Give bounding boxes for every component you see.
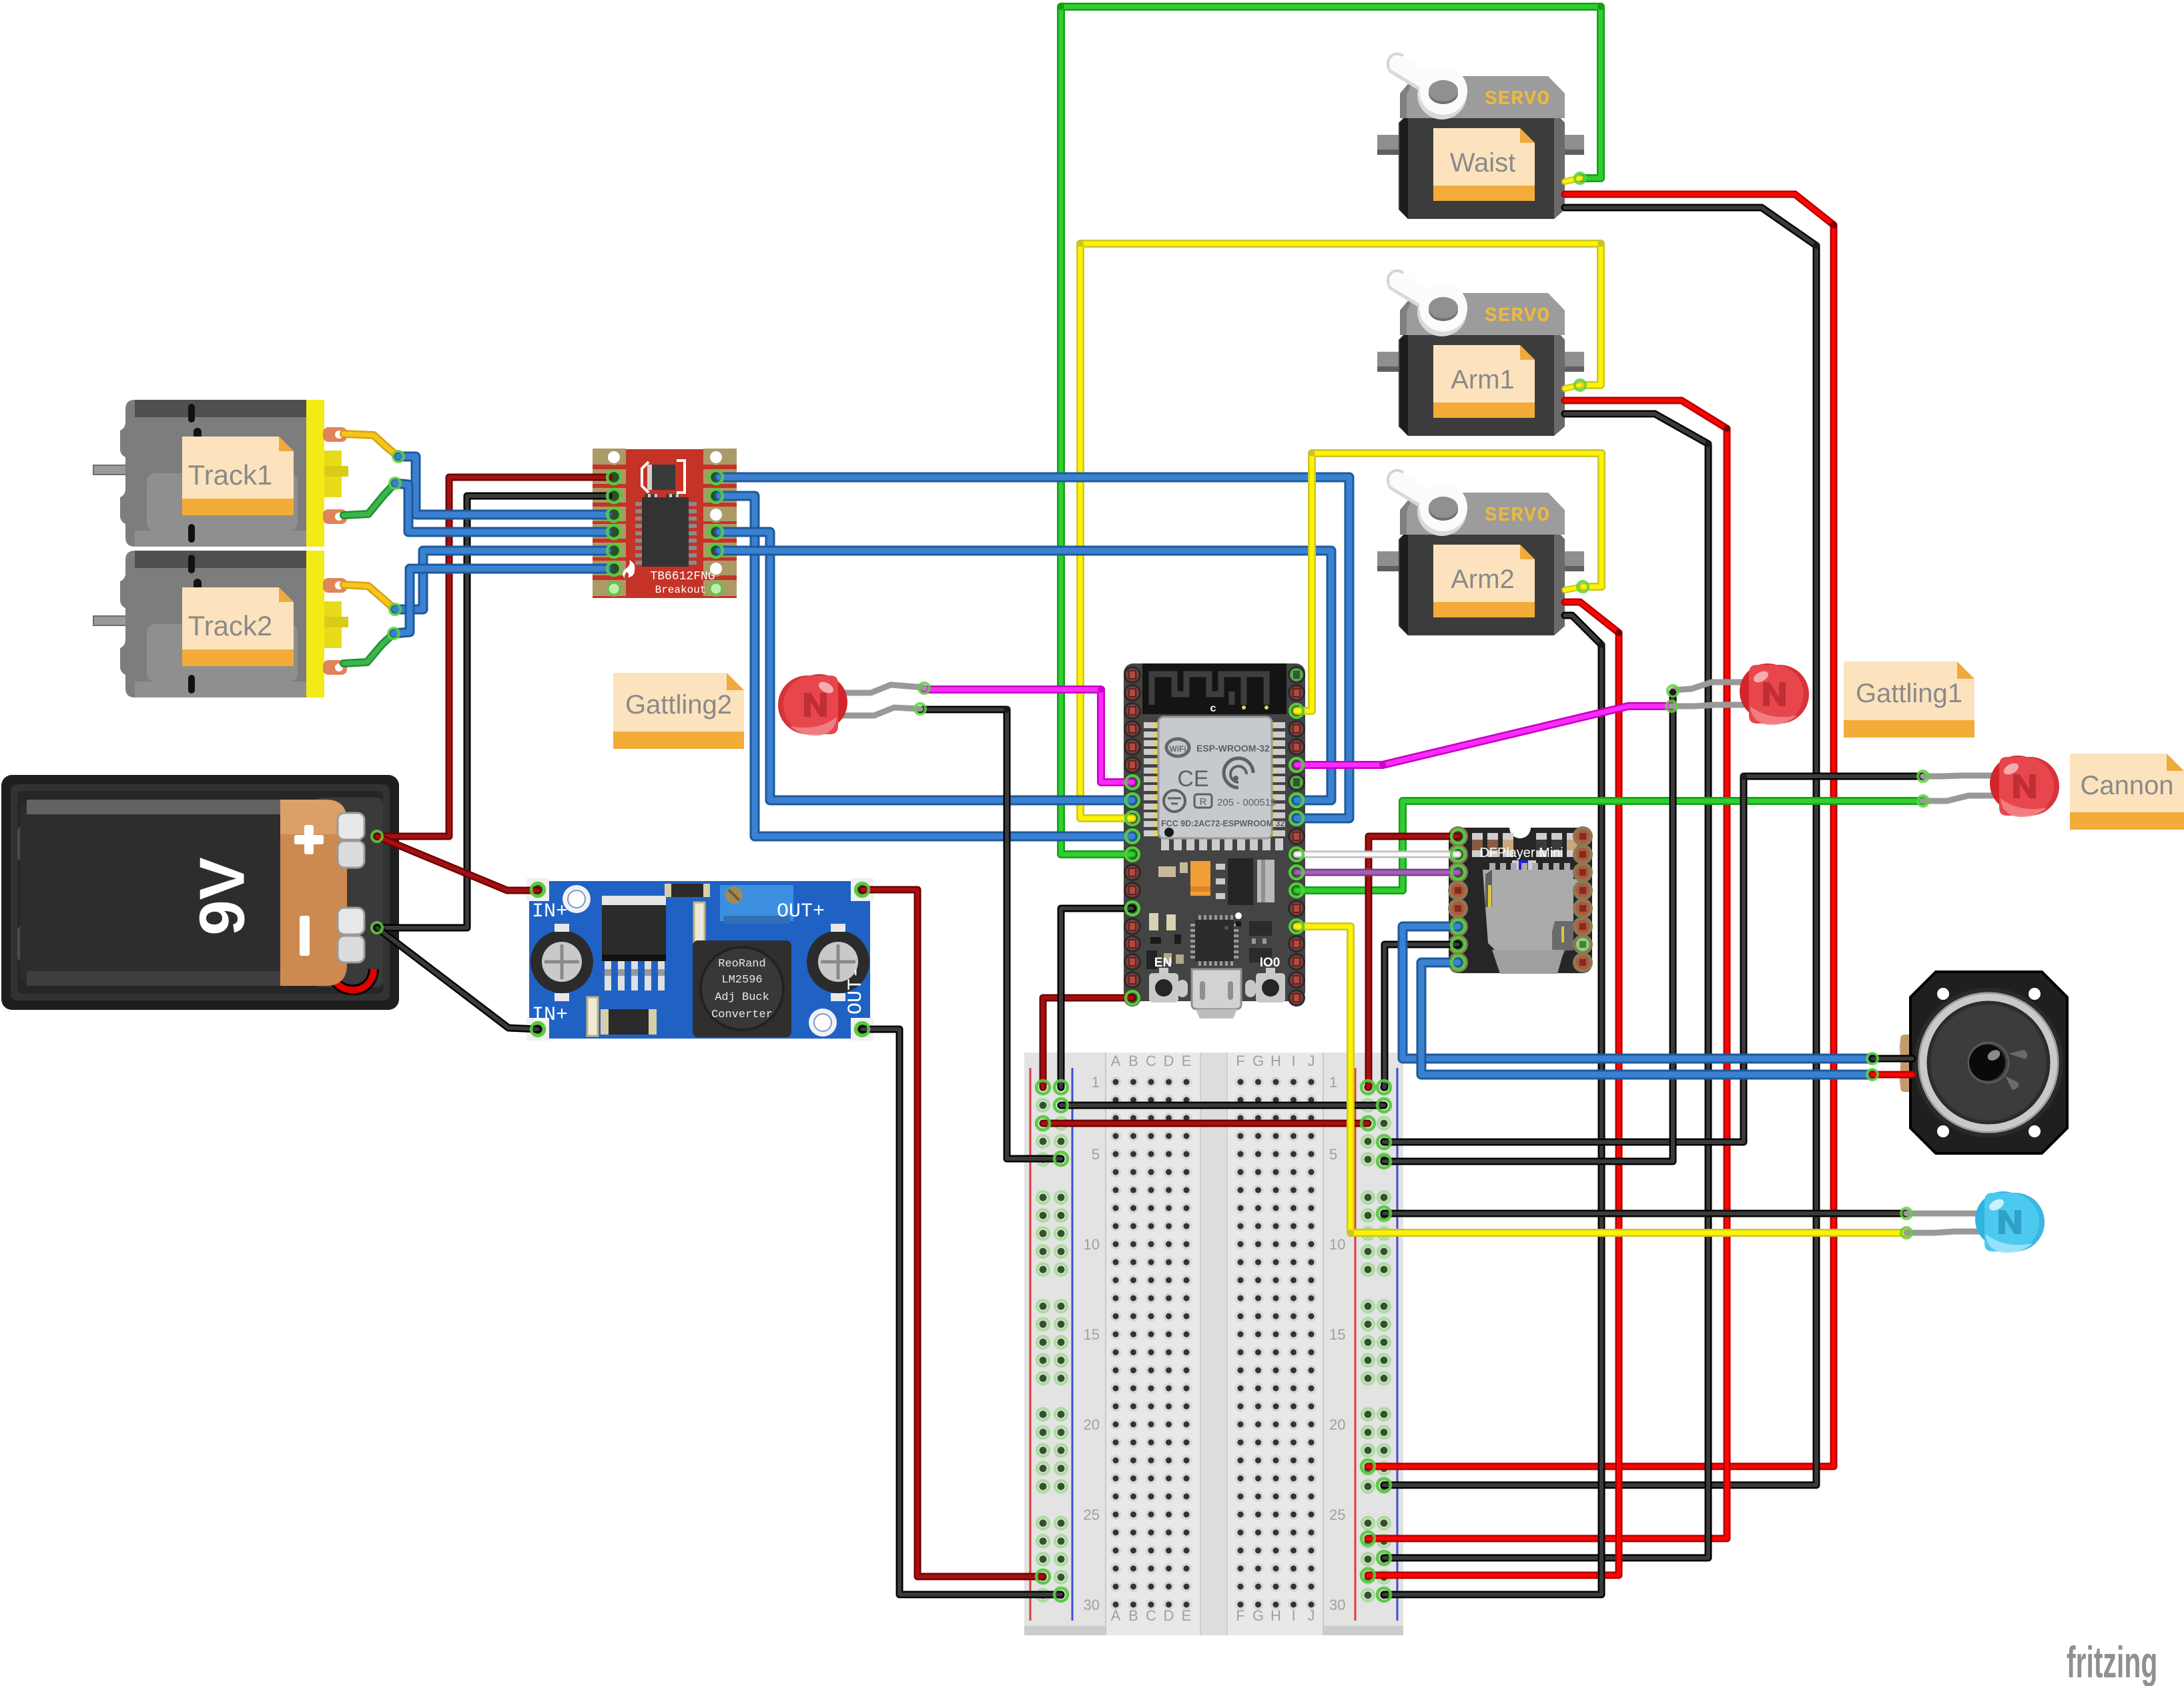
wire green Track1 motor terminal bbox=[344, 483, 395, 515]
svg-text:F: F bbox=[1236, 1053, 1244, 1069]
wire yellow ESP32 to Arm2 servo signal bbox=[1297, 453, 1601, 711]
wire yellow ESP32 to blue LED bbox=[1297, 926, 1906, 1233]
wire junctions bbox=[372, 173, 1928, 1238]
wire yellow Arm1 connector stub bbox=[1565, 385, 1580, 388]
wire yellow ESP32 to Arm1 servo signal bbox=[1080, 244, 1601, 818]
svg-text:1: 1 bbox=[1329, 1074, 1337, 1091]
wire magenta Gattling2 LED to ESP32 bbox=[924, 689, 1132, 782]
svg-text:c: c bbox=[1210, 703, 1216, 714]
servo S1 Waist bbox=[1377, 54, 1584, 219]
svg-text:5: 5 bbox=[1329, 1146, 1337, 1163]
svg-text:10: 10 bbox=[1329, 1236, 1345, 1253]
svg-text:Breakout: Breakout bbox=[655, 584, 707, 596]
label note Cannon bbox=[2070, 754, 2184, 830]
svg-text:G: G bbox=[1252, 1053, 1264, 1069]
svg-text:SERVO: SERVO bbox=[1485, 87, 1550, 111]
svg-text:C: C bbox=[1146, 1053, 1156, 1069]
svg-text:B: B bbox=[1128, 1607, 1138, 1624]
buck converter U2 LM2596 bbox=[526, 878, 873, 1041]
wire black Gattling2 LED to rail bbox=[920, 710, 1061, 1159]
svg-text:Track2: Track2 bbox=[188, 610, 273, 641]
fritzing watermark bbox=[2067, 1637, 2157, 1686]
speaker SPK1 bbox=[1899, 972, 2067, 1153]
svg-text:IN+: IN+ bbox=[532, 900, 568, 923]
wire black battery- to TB6612 GND bbox=[377, 496, 609, 928]
svg-text:SERVO: SERVO bbox=[1485, 304, 1550, 328]
audio module U4 DFPlayer Mini bbox=[1448, 826, 1593, 974]
servo S2 Arm1 bbox=[1377, 271, 1584, 436]
svg-text:Gattling2: Gattling2 bbox=[625, 690, 732, 720]
wire black DFPlayer GND to rail bbox=[1384, 944, 1458, 1087]
svg-text:ReoRand: ReoRand bbox=[718, 958, 765, 970]
wire green Track2 motor terminal bbox=[344, 633, 394, 663]
LED D3 Cannon red bbox=[1923, 756, 2059, 817]
svg-text:J: J bbox=[1308, 1053, 1315, 1069]
svg-text:15: 15 bbox=[1329, 1326, 1345, 1343]
svg-text:Adj Buck: Adj Buck bbox=[715, 991, 769, 1004]
wire red Arm2 servo V+ bbox=[1368, 602, 1619, 1575]
connected pin rings bbox=[531, 471, 1465, 1601]
svg-text:ESP-WROOM-32: ESP-WROOM-32 bbox=[1196, 743, 1270, 754]
wire black speaker terminal stub bbox=[1872, 1055, 1912, 1063]
wire red LM2596 OUT+ to breadboard rail bbox=[862, 890, 1043, 1577]
wire black ESP32 GND to breadboard rail bbox=[1061, 908, 1132, 1087]
svg-text:Arm1: Arm1 bbox=[1451, 365, 1515, 394]
wire black Arm2 servo GND bbox=[1384, 615, 1601, 1595]
wire black blue LED to rail bbox=[1384, 1210, 1906, 1217]
wire black Gattling1 LED to rail bbox=[1384, 692, 1673, 1161]
wire red ESP32 VIN to breadboard rail bbox=[1043, 998, 1132, 1087]
wire black Arm1 servo GND bbox=[1384, 414, 1708, 1558]
svg-text:FCC 9D:2AC72-ESPWROOM 32: FCC 9D:2AC72-ESPWROOM 32 bbox=[1161, 819, 1285, 828]
svg-text:25: 25 bbox=[1084, 1506, 1100, 1523]
svg-text:9V: 9V bbox=[186, 857, 258, 935]
svg-text:D: D bbox=[1164, 1053, 1174, 1069]
wire red battery+ to LM2596 IN+ bbox=[377, 836, 538, 890]
wire black battery- to LM2596 IN- bbox=[377, 928, 538, 1029]
svg-text:CE: CE bbox=[1177, 766, 1208, 792]
wire green ESP32 to Cannon LED bbox=[1297, 801, 1923, 890]
wire blue DFPlayer SPK2 to speaker bbox=[1421, 962, 1872, 1075]
svg-text:WiFi: WiFi bbox=[1169, 744, 1186, 754]
motor driver U3 TB6612FNG breakout bbox=[593, 449, 737, 598]
wire green ESP32 to Waist servo signal bbox=[1061, 7, 1601, 854]
wire blue TB6612 AIN2 to ESP32 bbox=[719, 496, 1132, 836]
wire black breadboard rail bus bbox=[1061, 1102, 1384, 1109]
wire yellow Arm2 connector stub bbox=[1565, 587, 1583, 590]
wire blue TB6612 AIN1 to ESP32 bbox=[719, 532, 1132, 800]
svg-text:B: B bbox=[1128, 1053, 1138, 1069]
label note Gattling2 bbox=[613, 673, 744, 749]
svg-text:E: E bbox=[1182, 1053, 1192, 1069]
svg-text:A: A bbox=[1111, 1607, 1121, 1624]
wire bend points bbox=[1004, 3, 1837, 1236]
svg-text:F: F bbox=[1236, 1607, 1244, 1624]
wire red DFPlayer VCC to rail bbox=[1368, 836, 1458, 1087]
svg-text:30: 30 bbox=[1084, 1597, 1100, 1613]
svg-text:SERVO: SERVO bbox=[1485, 504, 1550, 527]
wire yellow Track1 motor terminal bbox=[344, 434, 398, 457]
svg-text:205 - 000519: 205 - 000519 bbox=[1217, 797, 1276, 808]
wire red Waist servo V+ bbox=[1368, 194, 1834, 1466]
svg-text:Arm2: Arm2 bbox=[1451, 565, 1515, 594]
svg-text:OUT-: OUT- bbox=[845, 966, 867, 1015]
svg-text:15: 15 bbox=[1084, 1326, 1100, 1343]
svg-text:I: I bbox=[1291, 1607, 1295, 1624]
svg-text:H: H bbox=[1270, 1607, 1281, 1624]
svg-text:10: 10 bbox=[1084, 1236, 1100, 1253]
wire purple ESP32 RX to DFPlayer TX bbox=[1297, 869, 1458, 876]
LED D1 Gattling1 red bbox=[1672, 663, 1809, 725]
LED D2 Gattling2 red bbox=[778, 674, 924, 736]
wire blue Track2 B to TB6612 bbox=[394, 569, 607, 633]
wire blue TB6612 STBY to ESP32 bbox=[719, 551, 1331, 800]
svg-text:G: G bbox=[1252, 1607, 1264, 1624]
wire red Arm1 servo V+ bbox=[1368, 400, 1727, 1538]
svg-text:H: H bbox=[1270, 1053, 1281, 1069]
svg-text:Gattling1: Gattling1 bbox=[1856, 679, 1962, 708]
svg-text:1: 1 bbox=[1092, 1074, 1100, 1091]
wire magenta ESP32 to Gattling1 LED bbox=[1297, 706, 1672, 765]
svg-text:OUT+: OUT+ bbox=[777, 900, 825, 923]
svg-text:5: 5 bbox=[1092, 1146, 1100, 1163]
wire red battery+ to TB6612 VM bbox=[377, 477, 609, 836]
microcontroller U1 ESP32 DevKit ESP-WROOM-32 bbox=[1124, 663, 1305, 1019]
wire black Cannon LED to rail bbox=[1384, 776, 1923, 1142]
svg-text:E: E bbox=[1182, 1607, 1192, 1624]
svg-text:Track1: Track1 bbox=[188, 459, 273, 491]
svg-text:30: 30 bbox=[1329, 1597, 1345, 1613]
wire yellow Waist connector stub bbox=[1565, 178, 1580, 182]
wire black LM2596 OUT- to breadboard rail bbox=[862, 1029, 1061, 1595]
motor M1 Track1 bbox=[93, 400, 348, 547]
svg-text:fritzing: fritzing bbox=[2067, 1637, 2157, 1686]
svg-text:25: 25 bbox=[1329, 1506, 1345, 1523]
wire blue Track1 A to TB6612 bbox=[398, 457, 607, 515]
wire blue DFPlayer SPK1 to speaker bbox=[1403, 926, 1872, 1059]
wire blue Track1 B to TB6612 bbox=[395, 483, 607, 532]
svg-text:DFPlayer Mini: DFPlayer Mini bbox=[1479, 846, 1563, 860]
svg-text:Cannon: Cannon bbox=[2080, 771, 2173, 800]
svg-text:J: J bbox=[1308, 1607, 1315, 1624]
wire white ESP32 TX to DFPlayer RX bbox=[1297, 851, 1458, 858]
wire red breadboard rail bus bbox=[1043, 1120, 1368, 1127]
svg-text:I: I bbox=[1291, 1053, 1295, 1069]
wire yellow Track2 motor terminal bbox=[344, 585, 395, 609]
svg-text:LM2596: LM2596 bbox=[721, 974, 762, 987]
svg-text:20: 20 bbox=[1329, 1416, 1345, 1433]
svg-text:Waist: Waist bbox=[1450, 148, 1516, 178]
svg-text:20: 20 bbox=[1084, 1416, 1100, 1433]
wire blue TB6612 PWMA to ESP32 bbox=[719, 477, 1349, 818]
motor M2 Track2 bbox=[93, 551, 348, 697]
svg-text:IO0: IO0 bbox=[1260, 956, 1281, 970]
battery BT1 9V bbox=[1, 775, 399, 1010]
svg-text:Converter: Converter bbox=[711, 1009, 773, 1021]
wire blue Track2 A to TB6612 bbox=[395, 551, 607, 609]
svg-text:EN: EN bbox=[1154, 956, 1172, 970]
LED D4 blue bbox=[1906, 1191, 2045, 1253]
svg-text:D: D bbox=[1164, 1607, 1174, 1624]
label note Gattling1 bbox=[1844, 661, 1974, 738]
breadboard bbox=[1024, 1053, 1403, 1635]
svg-text:C: C bbox=[1146, 1607, 1156, 1624]
wire red speaker terminal stub bbox=[1872, 1071, 1912, 1079]
servo S3 Arm2 bbox=[1377, 471, 1584, 635]
svg-text:R: R bbox=[1200, 796, 1207, 808]
wire black Waist servo GND bbox=[1384, 208, 1816, 1485]
svg-text:A: A bbox=[1111, 1053, 1121, 1069]
svg-text:TB6612FNG: TB6612FNG bbox=[650, 570, 715, 583]
